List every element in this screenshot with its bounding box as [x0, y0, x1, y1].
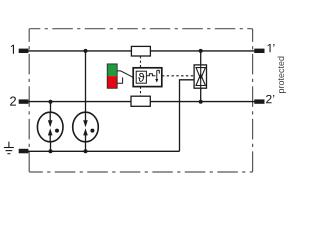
junction dot wire1/suppressor [199, 49, 203, 53]
terminal 1' [254, 49, 264, 53]
enclosure dash-dot border left [28, 29, 30, 172]
junction dot wire2/suppressor [199, 100, 203, 104]
ground wire [28, 150, 180, 152]
label terminal 2 [10, 97, 16, 106]
enclosure dash-dot border bottom [29, 171, 252, 173]
suppressor diode (bidirectional) [194, 65, 206, 88]
terminal ground [19, 149, 29, 154]
wire: suppressor diode earth branch (L to ground wire) [180, 80, 195, 152]
enclosure dash-dot border top [29, 28, 252, 30]
wire 2 (terminal 2 to 2') [28, 101, 255, 103]
terminal 1 [19, 49, 29, 53]
junction dot wire2/F1 [49, 100, 53, 104]
gas discharge tube F1 [37, 112, 63, 142]
dashed link: thermal monitor to resistor R2 [140, 87, 142, 97]
ground symbol [4, 142, 14, 154]
label terminal 2prime [266, 95, 271, 103]
wire branch: GDT F1 vertical (wire2 to ground) [50, 102, 52, 152]
enclosure dash-dot border right [252, 29, 254, 172]
terminal 2 [19, 99, 29, 103]
indicator linkage to monitor [117, 71, 133, 78]
resistor R1 [131, 46, 150, 56]
discharge arrow [156, 70, 158, 80]
wire branch: suppressor diode vertical (wire1 to wire2) [200, 51, 202, 102]
junction dot ground/F2 [84, 149, 88, 153]
thermal disconnect monitor U1 [133, 68, 162, 87]
gas discharge tube F2 [73, 112, 99, 142]
theta symbol [138, 73, 144, 82]
resistor R2 [131, 96, 150, 106]
label protected (vertical) [279, 89, 286, 93]
indicator contact hook [117, 77, 122, 83]
status indicator green flag [107, 64, 117, 76]
dashed link: resistor R1 to thermal monitor [140, 56, 142, 68]
label terminal 1 [11, 45, 14, 54]
dashed link: thermal monitor to suppressor diode [162, 75, 194, 77]
terminal 2' [254, 99, 264, 103]
junction dot ground/F1 [49, 149, 53, 153]
junction dot wire1/F2 [84, 49, 88, 53]
status indicator red flag [107, 76, 117, 88]
wire branch: GDT F2 vertical (wire1 to ground) [85, 51, 87, 151]
wire 1 (terminal 1 to 1') [28, 50, 255, 52]
status indicator outline [107, 64, 117, 88]
pulse waveform [147, 74, 155, 76]
thermal sensor inner box [136, 71, 146, 83]
label terminal 1prime [268, 44, 271, 52]
